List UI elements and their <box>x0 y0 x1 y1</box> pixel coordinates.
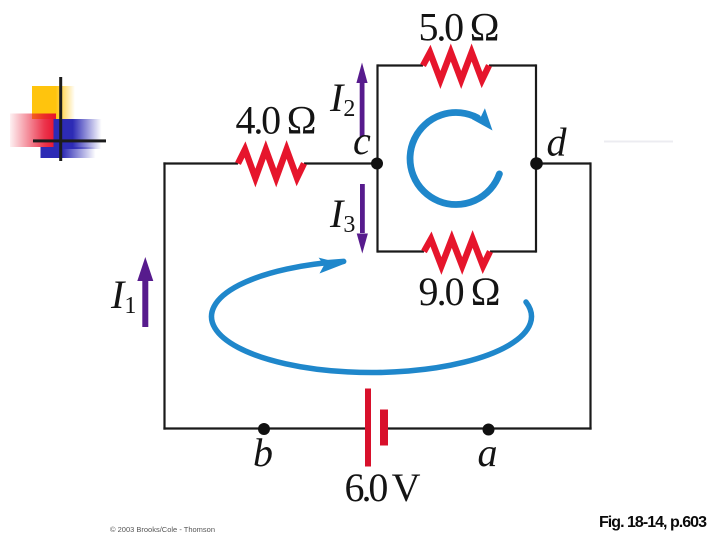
svg-text:I3: I3 <box>329 191 355 238</box>
logo blue square <box>54 119 102 149</box>
svg-text:4.0 Ω: 4.0 Ω <box>236 98 317 143</box>
logo yellow square <box>32 86 75 119</box>
wire inner box top left segment <box>378 64 424 66</box>
wire inner box bottom right segment <box>490 250 536 252</box>
battery long plate <box>365 389 371 467</box>
logo blue small square <box>41 147 96 158</box>
node d <box>530 157 543 170</box>
svg-text:c: c <box>353 118 371 163</box>
battery short plate <box>380 410 388 446</box>
resistor R1 4.0 ohm zigzag <box>238 150 304 179</box>
svg-text:I1: I1 <box>110 272 136 319</box>
loop current arrow (clockwise circle, loop 2) <box>410 108 499 204</box>
logo cross vertical line <box>59 77 62 161</box>
wire left vertical <box>163 162 165 429</box>
svg-text:a: a <box>478 430 498 475</box>
svg-text:d: d <box>547 120 568 165</box>
node a <box>483 424 495 436</box>
faint artifact line right of d <box>604 141 673 143</box>
wire inner box left vertical <box>376 64 378 252</box>
node b <box>258 423 270 435</box>
logo red square <box>10 114 56 148</box>
resistor R3 9.0 ohm zigzag <box>424 239 490 266</box>
wire inner box top right segment <box>489 64 536 66</box>
wire resistor R1 to node c <box>304 162 378 164</box>
wire inner box right vertical <box>535 64 537 252</box>
node c <box>371 158 383 170</box>
current arrow I3 (purple, down) <box>357 184 368 254</box>
wire bottom left (to battery) <box>163 427 365 429</box>
loop current arrow (clockwise ellipse, loop 1) <box>211 258 531 373</box>
svg-text:b: b <box>253 430 273 475</box>
wire node d to right <box>536 162 591 164</box>
wire battery to bottom right <box>388 427 592 429</box>
logo cross horizontal line <box>33 139 106 142</box>
resistor R2 5.0 ohm zigzag <box>423 53 489 81</box>
current arrow I1 (purple, up) <box>137 257 153 327</box>
svg-text:6.0 V: 6.0 V <box>345 465 421 510</box>
wire right vertical <box>589 162 591 429</box>
svg-text:9.0 Ω: 9.0 Ω <box>419 269 501 314</box>
wire top-left horizontal (to resistor) <box>163 162 238 164</box>
svg-text:I2: I2 <box>329 75 355 122</box>
svg-text:5.0 Ω: 5.0 Ω <box>419 5 500 50</box>
svg-text:Fig. 18-14, p.603: Fig. 18-14, p.603 <box>599 514 707 531</box>
wire inner box bottom left segment <box>378 250 425 252</box>
current arrow I2 (purple, up) <box>356 63 367 137</box>
svg-text:© 2003 Brooks/Cole - Thomson: © 2003 Brooks/Cole - Thomson <box>110 525 215 534</box>
